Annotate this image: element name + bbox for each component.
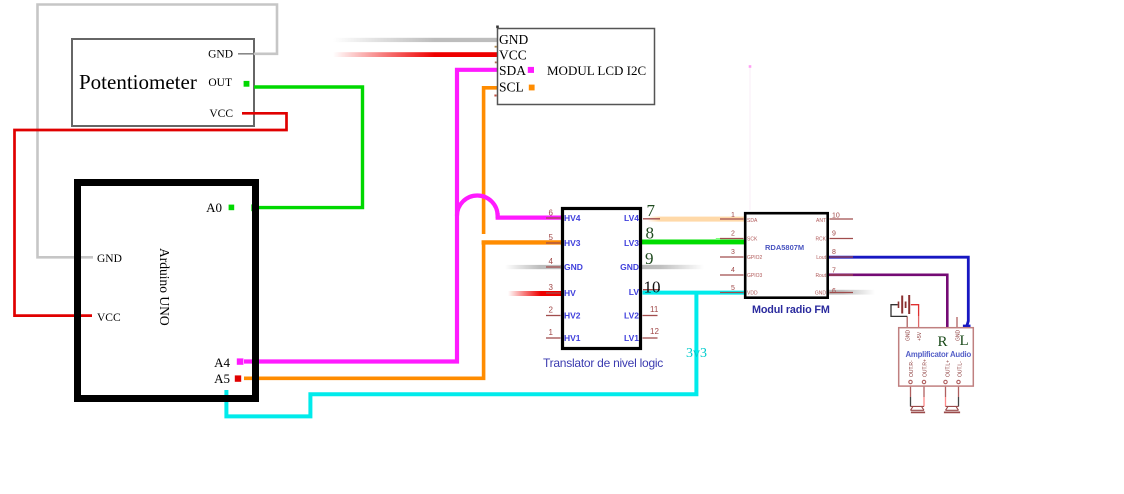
svg-text:OUT: OUT	[208, 77, 232, 89]
svg-text:9: 9	[832, 231, 836, 238]
svg-text:6: 6	[832, 288, 836, 295]
svg-text:GND: GND	[815, 291, 827, 297]
svg-text:GPIO3: GPIO3	[747, 273, 763, 279]
svg-text:10: 10	[832, 213, 840, 220]
svg-text:1: 1	[549, 328, 554, 337]
svg-text:9: 9	[645, 249, 654, 268]
svg-text:HV1: HV1	[564, 333, 581, 343]
svg-text:5: 5	[549, 233, 554, 242]
svg-text:HV4: HV4	[564, 213, 581, 223]
svg-text:GND: GND	[97, 253, 122, 265]
svg-text:VDD: VDD	[747, 291, 758, 297]
svg-text:LV2: LV2	[624, 311, 639, 321]
svg-text:5: 5	[731, 285, 735, 292]
svg-text:SDA: SDA	[499, 63, 526, 78]
svg-text:Modul radio FM: Modul radio FM	[752, 304, 830, 316]
svg-text:R: R	[938, 334, 948, 350]
svg-text:3v3: 3v3	[686, 346, 707, 361]
svg-text:3: 3	[731, 249, 735, 256]
svg-text:OUT.R+: OUT.R+	[923, 359, 929, 377]
svg-text:SDA: SDA	[747, 218, 758, 224]
svg-text:VCC: VCC	[97, 312, 121, 324]
svg-text:Lout: Lout	[816, 255, 826, 261]
svg-text:GND: GND	[620, 262, 639, 272]
svg-text:7: 7	[832, 268, 836, 275]
svg-text:Rout: Rout	[815, 273, 826, 279]
svg-text:SCL: SCL	[499, 80, 524, 95]
svg-text:GPIO2: GPIO2	[747, 255, 763, 261]
svg-text:GND: GND	[906, 330, 912, 342]
svg-text:L: L	[960, 333, 969, 349]
svg-text:RDA5807M: RDA5807M	[765, 243, 804, 252]
svg-text:LV4: LV4	[624, 213, 639, 223]
svg-text:HV3: HV3	[564, 238, 581, 248]
svg-text:6: 6	[549, 209, 554, 218]
svg-text:4: 4	[731, 267, 735, 274]
svg-text:RCK: RCK	[815, 237, 826, 243]
svg-text:Translator de nivel logic: Translator de nivel logic	[543, 356, 663, 370]
svg-text:10: 10	[644, 278, 661, 297]
svg-text:GND: GND	[564, 262, 583, 272]
svg-text:OUT.R-: OUT.R-	[909, 360, 915, 377]
svg-text:HV: HV	[564, 288, 576, 298]
svg-text:A4: A4	[214, 355, 230, 370]
svg-text:Amplificator Audio: Amplificator Audio	[906, 350, 972, 359]
svg-text:SCK: SCK	[747, 237, 758, 243]
svg-text:4: 4	[549, 257, 554, 266]
svg-text:LV3: LV3	[624, 238, 639, 248]
svg-text:MODUL LCD I2C: MODUL LCD I2C	[547, 63, 646, 78]
svg-text:OUT.L-: OUT.L-	[958, 361, 964, 377]
svg-text:11: 11	[650, 305, 659, 314]
svg-text:ANT: ANT	[816, 218, 826, 224]
svg-text:2: 2	[549, 306, 554, 315]
svg-text:+5V: +5V	[917, 331, 923, 341]
svg-text:3: 3	[549, 283, 554, 292]
svg-text:2: 2	[731, 231, 735, 238]
svg-text:Arduino UNO: Arduino UNO	[157, 248, 172, 326]
svg-text:HV2: HV2	[564, 311, 581, 321]
svg-text:LV1: LV1	[624, 333, 639, 343]
svg-text:GND: GND	[499, 32, 528, 47]
svg-text:LV: LV	[629, 287, 640, 297]
svg-text:OUT.L+: OUT.L+	[946, 360, 952, 377]
svg-text:12: 12	[650, 327, 659, 336]
svg-text:VCC: VCC	[209, 108, 233, 120]
svg-text:A5: A5	[214, 371, 230, 386]
svg-text:GND: GND	[208, 49, 233, 61]
svg-text:1: 1	[731, 212, 735, 219]
svg-text:Potentiometer: Potentiometer	[79, 70, 197, 94]
svg-text:VCC: VCC	[499, 48, 527, 63]
svg-text:A0: A0	[206, 200, 222, 215]
svg-text:7: 7	[647, 201, 656, 220]
svg-text:8: 8	[646, 224, 655, 243]
svg-text:8: 8	[832, 249, 836, 256]
